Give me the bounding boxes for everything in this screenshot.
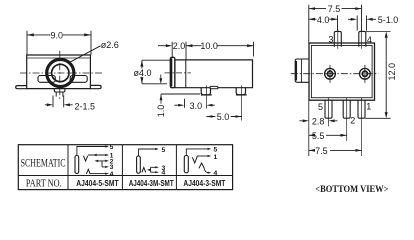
side view: dimension 10.0 line — [186, 45, 254, 47]
schematic 1: wire to pin 1 — [88, 154, 106, 156]
schematic 3: pin arrowheads — [208, 148, 212, 174]
schematic 3: tip spring V — [192, 156, 197, 163]
schematic 1: sleeve contact — [75, 156, 79, 174]
table: column dividers — [68, 145, 176, 190]
schematic 1: switch arrow on line 2 — [94, 160, 98, 162]
side view: smt leg 1 — [201, 88, 210, 95]
svg-text:3.0: 3.0 — [190, 101, 203, 111]
side view: leg centerlines — [206, 86, 241, 121]
schematic 3: ring spring — [199, 163, 204, 168]
front view: left slot — [38, 76, 55, 83]
front view: body outline — [27, 55, 91, 89]
side view: dimension 10.0 arrows — [186, 44, 254, 47]
svg-text:5.5: 5.5 — [312, 131, 325, 141]
schematic 1: tip spring V — [83, 156, 87, 161]
side view: seating plane line — [161, 93, 200, 95]
front view: jack barrel outer ring — [47, 59, 74, 86]
svg-text:4: 4 — [162, 170, 166, 177]
schematic 2: ring spring — [142, 167, 146, 172]
bottom view: body inner outline — [311, 46, 372, 98]
bottom view: body outer outline — [309, 43, 375, 100]
side view: dimension 5.0 — [206, 116, 241, 118]
front view: right slot — [70, 76, 87, 83]
bottom view: dimension 7.5 bottom — [309, 149, 362, 151]
side view: dimension 10.0 right extension line — [253, 42, 255, 57]
side view: bottom notch tab — [210, 86, 218, 88]
svg-text:AJ404-5-SMT: AJ404-5-SMT — [76, 178, 119, 188]
schematic 2: pin arrowheads — [155, 148, 159, 173]
svg-text:5-1.0: 5-1.0 — [378, 15, 399, 25]
svg-text:ø2.6: ø2.6 — [101, 40, 119, 50]
side view: dimension 1.0 — [160, 75, 162, 104]
front view: leader line for dia 2.6 — [68, 46, 101, 63]
svg-text:<BOTTOM VIEW>: <BOTTOM VIEW> — [315, 184, 389, 195]
front view: left mounting tab — [16, 86, 27, 89]
svg-text:2.8: 2.8 — [312, 117, 325, 127]
svg-text:9.0: 9.0 — [51, 30, 64, 40]
schematic 3: wire to pin 5 — [186, 149, 208, 156]
svg-text:7.5: 7.5 — [315, 146, 328, 156]
schematic 3: wire to pin 4 — [204, 168, 208, 172]
front view: bottom center pin legs — [56, 92, 63, 97]
front view: body top step line — [27, 57, 90, 59]
svg-text:5.0: 5.0 — [217, 112, 230, 122]
svg-text:AJ404-3M-SMT: AJ404-3M-SMT — [129, 178, 175, 188]
schematic 3: sleeve contact — [184, 156, 188, 173]
schematic 1: wire to pin 4 — [90, 173, 105, 175]
side view: barrel top edge / extension — [142, 59, 170, 61]
side view: body face line — [185, 60, 187, 88]
svg-text:12.0: 12.0 — [387, 63, 397, 81]
svg-text:1: 1 — [214, 154, 218, 161]
schematic 1: pin arrowheads — [105, 145, 109, 174]
svg-text:1.0: 1.0 — [156, 105, 166, 118]
schematic 1: switch arrow on line 1 — [93, 154, 97, 156]
side view: dimension 2.0 left arrow — [158, 45, 167, 47]
side view: dia 4.0 dimension line and arrows — [141, 60, 143, 83]
schematic 2: bracket pins 3-4 — [151, 167, 156, 172]
bottom view: dimension 2.8 — [308, 100, 310, 156]
bottom view: dimension 5-1.0 — [348, 16, 376, 31]
bottom view: pin 2 — [343, 100, 350, 119]
bottom view: pin 4 — [359, 31, 366, 46]
svg-text:AJ404-3-SMT: AJ404-3-SMT — [183, 178, 226, 188]
svg-text:5: 5 — [318, 102, 323, 112]
schematic 1: wire to pin 5 — [77, 147, 106, 156]
side view: dimension 2.0 extension lines — [172, 42, 186, 60]
schematic 2: wire to pin 5 — [139, 149, 156, 156]
bottom view: dimension 5.5 — [309, 134, 347, 136]
front view: right mounting tab — [90, 85, 101, 88]
svg-text:7.5: 7.5 — [328, 4, 341, 14]
bottom view: pin 5 — [325, 100, 332, 119]
bottom view: dimension 7.5 top extension lines — [309, 5, 362, 43]
table: row divider — [18, 175, 232, 177]
front view: jack hole dia 2.6 circle — [52, 64, 69, 81]
bottom view: dimension 4.0 — [309, 15, 338, 30]
front view: dimension 2-1.5 extension lines — [53, 96, 64, 108]
svg-text:4: 4 — [110, 171, 114, 178]
svg-text:4: 4 — [214, 170, 218, 177]
bottom view: horizontal centerline — [291, 73, 379, 75]
side view: barrel bottom edge / extension — [142, 83, 167, 85]
front view: dimension 9.0 line — [27, 34, 91, 36]
schematic 1: ring spring — [86, 169, 90, 174]
bottom view: pin 1 — [358, 100, 365, 119]
bottom view: mounting hole circle right — [360, 68, 371, 79]
svg-text:2-1.5: 2-1.5 — [75, 102, 96, 112]
bottom view: dimension 12.0 — [365, 32, 390, 119]
schematic 1: bracket pins 2-3 — [98, 161, 106, 167]
svg-text:ø4.0: ø4.0 — [134, 68, 152, 78]
table: outer frame — [18, 145, 232, 190]
svg-text:1: 1 — [366, 101, 371, 111]
bottom view: mounting hole circle left — [325, 68, 336, 79]
front view: dimension 2-1.5 arrows — [45, 104, 73, 106]
bottom view: dimension 7.5 top line — [309, 8, 362, 10]
svg-text:SCHEMATIC: SCHEMATIC — [21, 156, 66, 169]
front view: dimension 9.0 arrows — [27, 33, 91, 36]
svg-text:4.0: 4.0 — [317, 15, 330, 25]
schematic 3: wire to pin 1 — [197, 155, 208, 157]
side view: horizontal centerline — [165, 72, 192, 74]
side view: smt leg 2 — [236, 88, 245, 95]
svg-text:5: 5 — [214, 146, 218, 153]
svg-text:4: 4 — [367, 35, 372, 45]
bottom view: left barrel tab — [295, 59, 309, 82]
svg-text:10.0: 10.0 — [200, 41, 218, 51]
svg-text:PART NO.: PART NO. — [26, 177, 62, 189]
front view: horizontal centerline — [20, 72, 104, 74]
front view: bottom center pin collar — [54, 88, 65, 92]
front view: dimension 9.0 extension lines — [27, 31, 91, 55]
schematic 2: sleeve contact — [137, 156, 141, 173]
schematic 2: switch arrow — [147, 169, 151, 171]
side view: washer collar — [170, 57, 175, 87]
svg-text:5: 5 — [162, 147, 166, 154]
svg-text:2.0: 2.0 — [173, 41, 186, 51]
side view: main body outline — [175, 60, 253, 88]
svg-text:2: 2 — [350, 115, 355, 125]
svg-text:3: 3 — [328, 35, 333, 45]
bottom view: pin 3 — [334, 31, 341, 46]
side view: dimension 3.0 — [174, 99, 215, 108]
svg-text:5: 5 — [110, 144, 114, 151]
front view: vertical centerline — [59, 51, 61, 99]
